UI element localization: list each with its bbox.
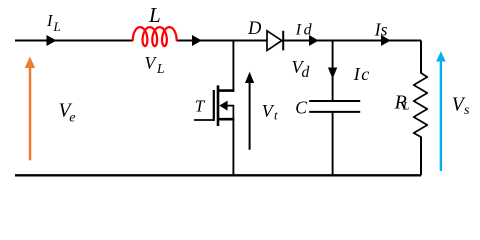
wire bottom rail — [15, 174, 421, 176]
transistor T channel bar — [217, 85, 220, 126]
wire right vertical bottom — [420, 137, 422, 176]
svg-text:C: C — [295, 98, 307, 118]
capacitor C top plate — [309, 100, 360, 102]
voltage arrow V_s — [440, 61, 442, 171]
svg-text:L: L — [148, 3, 161, 27]
transistor T body arrow — [219, 101, 227, 111]
wire top rail right segment — [283, 40, 421, 42]
inductor L — [133, 27, 177, 46]
svg-text:Is: Is — [374, 19, 388, 39]
transistor T gate lead — [194, 119, 214, 121]
wire capacitor bottom lead — [332, 112, 334, 175]
svg-text:L: L — [156, 61, 165, 76]
svg-text:D: D — [247, 19, 262, 39]
wire right vertical top — [420, 41, 422, 74]
current arrow after inductor — [192, 35, 202, 46]
transistor T source stub — [218, 118, 234, 121]
transistor T body lead — [226, 106, 233, 120]
transistor T gate bar — [213, 90, 215, 121]
capacitor C bottom plate — [309, 111, 360, 113]
current arrow I_L — [47, 35, 57, 46]
svg-text:s: s — [464, 103, 470, 118]
voltage arrow V_e — [29, 67, 32, 161]
transistor T drain stub — [218, 89, 234, 92]
diode D — [267, 31, 282, 51]
svg-text:L: L — [402, 99, 410, 113]
svg-text:e: e — [69, 110, 75, 125]
wire transistor source lead — [232, 119, 234, 175]
svg-text:I: I — [295, 22, 302, 39]
wire top rail left segment — [15, 40, 133, 42]
current arrow Ic — [328, 68, 337, 79]
svg-text:V: V — [262, 101, 275, 121]
svg-text:I: I — [353, 64, 361, 84]
wire capacitor top lead — [332, 41, 334, 102]
svg-text:t: t — [274, 108, 278, 123]
wire top rail middle segment — [177, 40, 267, 42]
diode D cathode bar — [282, 31, 284, 51]
svg-text:V: V — [145, 53, 158, 73]
current arrow Is — [381, 35, 391, 46]
current arrow Id — [309, 35, 319, 46]
wire transistor drain lead — [232, 41, 234, 92]
svg-text:L: L — [53, 19, 61, 34]
resistor R_L — [414, 73, 428, 137]
svg-text:d: d — [302, 64, 310, 81]
svg-text:T: T — [195, 97, 206, 116]
voltage arrow V_t — [249, 80, 251, 150]
svg-text:c: c — [361, 64, 369, 84]
svg-text:d: d — [304, 22, 313, 39]
